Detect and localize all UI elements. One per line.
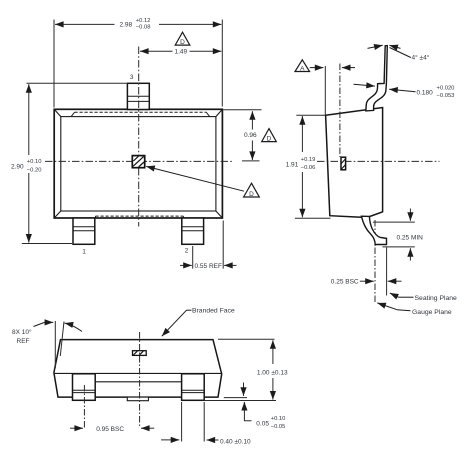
side view hatched section mark: [341, 157, 346, 170]
dimension 1.00 line and arrows: [272, 340, 274, 364]
leader from hatched square to datum D: [146, 166, 244, 191]
svg-text:+0.19: +0.19: [301, 157, 316, 163]
datum triangle D (right of 0.96): [262, 129, 277, 143]
svg-text:A: A: [300, 66, 305, 73]
dimension 2.90 extension lines: [22, 83, 127, 243]
svg-text:REF: REF: [17, 338, 30, 345]
svg-text:+0.12: +0.12: [136, 18, 151, 24]
seating plane line: [386, 248, 388, 296]
svg-text:−0.08: −0.08: [136, 24, 151, 30]
dimension 0.96 line and arrows: [251, 111, 253, 129]
svg-text:+0.10: +0.10: [271, 416, 286, 422]
front view pin 3 foot tab: [127, 397, 148, 401]
svg-text:1.49: 1.49: [175, 49, 188, 56]
pin 3 lead (top view): [127, 83, 149, 109]
Branded Face label and leader: [162, 308, 235, 337]
side view pin lead (bent down, foot): [361, 216, 386, 244]
datum triangle D (top): [175, 32, 190, 46]
svg-text:0.96: 0.96: [244, 132, 257, 139]
svg-text:1.91: 1.91: [286, 161, 299, 168]
side view body outline: [326, 108, 383, 218]
svg-text:Gauge Plane: Gauge Plane: [412, 309, 452, 316]
svg-text:0.95 BSC: 0.95 BSC: [96, 426, 124, 433]
svg-text:+0.020: +0.020: [437, 85, 455, 91]
8X 10 REF leader arrows: [34, 322, 45, 326]
svg-text:0.40 ±0.10: 0.40 ±0.10: [220, 438, 251, 445]
pin 2 lead (top view): [182, 218, 204, 244]
svg-text:2.98: 2.98: [120, 22, 133, 29]
branded face hatch mark: [133, 351, 147, 356]
4 degree angle arrows: [368, 45, 383, 48]
Seating Plane label and leader: [390, 293, 457, 302]
dimension 0.40 arrows: [161, 439, 179, 441]
svg-text:0.180: 0.180: [417, 89, 434, 96]
8X 10 REF extension lines: [54, 321, 56, 368]
top view body inner outline: [61, 117, 216, 211]
svg-text:−0.20: −0.20: [27, 168, 42, 174]
svg-text:D: D: [249, 191, 254, 198]
front view pin 2 lead: [182, 374, 205, 401]
svg-text:Seating Plane: Seating Plane: [415, 295, 458, 302]
svg-text:2: 2: [185, 247, 189, 254]
datum triangle A with arrow: [295, 60, 323, 73]
top view horizontal centerline: [45, 160, 232, 162]
svg-text:1: 1: [82, 249, 86, 256]
svg-text:0.25 MIN: 0.25 MIN: [397, 235, 424, 242]
svg-text:4° ±4°: 4° ±4°: [412, 54, 430, 62]
svg-text:0.05: 0.05: [256, 421, 269, 428]
standoff line (front view): [224, 397, 247, 399]
svg-text:+0.10: +0.10: [27, 159, 42, 165]
side view horizontal centerline: [317, 160, 440, 162]
top view corner chamfers: [54, 109, 222, 218]
dimension 1.49 line and arrows: [140, 50, 173, 52]
dimension 0.96 extension line: [223, 109, 261, 111]
0.25 MIN arrows: [409, 209, 411, 221]
datum triangle D (leader target): [244, 183, 260, 198]
opposing arrow at dash-dot line: [342, 67, 355, 69]
top view body outer outline: [54, 109, 222, 218]
gauge plane dash-dot line (lower part): [374, 248, 376, 303]
dimension 0.95 BSC arrows: [70, 427, 83, 429]
dimension 0.05 arrows: [243, 383, 245, 396]
top view hidden dashed line (top): [75, 111, 207, 113]
side view pin 3 lead (bent up): [366, 46, 387, 111]
svg-text:−0.05: −0.05: [271, 424, 286, 430]
pin 1 lead (top view): [73, 218, 95, 244]
0.25 BSC arrows: [360, 280, 374, 282]
0.180 lead thickness arrows: [354, 84, 375, 86]
seating plane line (front view): [204, 400, 276, 402]
Gauge Plane label and leader: [377, 303, 452, 316]
svg-text:3: 3: [130, 74, 134, 81]
dimension 2.98 extension lines: [54, 20, 222, 108]
svg-text:2.90: 2.90: [11, 164, 24, 171]
0.25 MIN extension lines: [373, 222, 415, 247]
front view body outline: [54, 340, 222, 398]
front view pin2 extension lines: [182, 402, 205, 442]
svg-text:0.55 REF: 0.55 REF: [195, 263, 222, 270]
4 degree leader line: [390, 48, 411, 58]
svg-text:−0.053: −0.053: [437, 93, 455, 99]
front view recess line between leads: [95, 381, 181, 383]
dimension 2.98 line and arrows: [55, 23, 115, 25]
thermal pad hatched square (top view): [132, 156, 144, 168]
top view vertical centerline: [138, 47, 140, 227]
dimension 0.55 REF arrows: [180, 264, 192, 266]
dimension 1.00 extension line: [218, 338, 275, 340]
dimension 1.91 extension lines: [295, 115, 331, 218]
front view pin 1 lead: [73, 374, 96, 401]
dimension 1.91 line and arrows: [301, 116, 303, 152]
front view parting line: [54, 372, 221, 374]
svg-text:0.25 BSC: 0.25 BSC: [331, 278, 359, 285]
svg-text:D: D: [267, 136, 272, 143]
side view vertical dash-dot reference line: [339, 64, 341, 158]
top view hidden dashed line (bottom): [96, 215, 184, 217]
svg-text:Branded Face: Branded Face: [192, 308, 235, 315]
front view pin1 dash-dot line: [83, 385, 85, 429]
side view datum A extension line: [324, 66, 326, 115]
dimension 2.90 line and arrows: [28, 84, 30, 155]
gauge plane dash-dot line (upper part, under lead): [374, 220, 376, 246]
svg-text:8X 10°: 8X 10°: [12, 328, 32, 336]
svg-text:D: D: [180, 39, 185, 46]
dimension 0.55 REF extension lines: [193, 221, 224, 269]
front view center dash-dot line: [139, 332, 141, 427]
svg-text:−0.06: −0.06: [301, 165, 316, 171]
svg-text:1.00 ±0.13: 1.00 ±0.13: [257, 370, 288, 377]
